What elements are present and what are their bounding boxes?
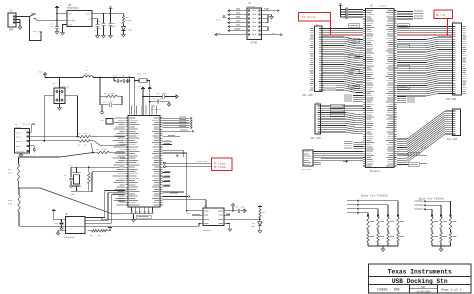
- esd filter D1 box: [54, 88, 65, 104]
- J5 pin squares: [318, 106, 321, 132]
- svg-text:C2: C2: [64, 174, 66, 177]
- svg-text:470R: 470R: [126, 19, 132, 22]
- U1 right wire B: [163, 130, 194, 133]
- svg-text:USBDF01W5: USBDF01W5: [59, 85, 70, 88]
- U5 pin4 ground: [226, 224, 231, 232]
- label SIL-40M J3: [303, 94, 314, 97]
- U2 bottom right label boxes: [397, 152, 419, 166]
- label U5: [204, 205, 207, 208]
- J3 bus label boxes: [349, 24, 360, 89]
- label J4R: [453, 20, 456, 23]
- J4R bus label boxes: [398, 24, 410, 89]
- wire U3 Vout: [92, 13, 124, 15]
- U1 right stubs C: [163, 135, 180, 145]
- U1 outside left labels: [113, 118, 125, 206]
- svg-text:USB Docking Stn: USB Docking Stn: [392, 278, 448, 285]
- svg-text:Data+: Data+: [16, 140, 23, 143]
- connector J5 box: [315, 104, 321, 134]
- U2 right pin ticks: [394, 11, 397, 167]
- svg-text:TS5A3159: TS5A3159: [64, 236, 75, 239]
- U3 gnd pin wire: [61, 25, 67, 36]
- svg-text:J1: J1: [9, 10, 13, 13]
- resistor R8 470R: [122, 14, 132, 24]
- boot B resistor columns: [431, 201, 457, 246]
- U1 right stubs D: [163, 171, 171, 186]
- svg-text:100n: 100n: [162, 92, 167, 95]
- J7 second column pins: [313, 152, 321, 165]
- capacitor C1: [51, 23, 60, 35]
- svg-text:5v-USB: 5v-USB: [23, 123, 31, 126]
- U5 inner pin names: [204, 210, 223, 224]
- svg-text:TMS: TMS: [236, 8, 241, 11]
- resistor R4 27R0: [100, 92, 122, 105]
- svg-text:R9: R9: [263, 211, 265, 214]
- J2 right wire row5: [262, 27, 269, 31]
- connector J4R box: [453, 23, 462, 95]
- svg-text:Texas Instruments: Texas Instruments: [388, 269, 452, 276]
- U1 right wire to U5 vertical pair: [163, 150, 187, 210]
- svg-text:C17: C17: [252, 223, 255, 225]
- wire long bottom: [19, 225, 88, 227]
- label J1: [9, 10, 13, 13]
- svg-text:R22: R22: [98, 235, 101, 237]
- regulator U3 box: [67, 11, 92, 27]
- U1 top pin hatch: [131, 106, 157, 115]
- USB pin labels: [16, 131, 24, 153]
- power flag 3V3 output: [109, 7, 113, 15]
- clock output pins circles: [164, 162, 166, 168]
- svg-text:1k5: 1k5: [8, 203, 13, 206]
- title cell C2000 DAF: [377, 289, 400, 293]
- svg-text:DIL-14M: DIL-14M: [247, 5, 256, 8]
- crystal X1: [70, 164, 92, 191]
- svg-text:Enable: Enable: [68, 19, 77, 22]
- svg-text:P28xxx: P28xxx: [379, 4, 387, 7]
- U1 right pin ticks: [160, 118, 163, 205]
- ic U6 box: [66, 217, 86, 234]
- U6 left pins: [56, 220, 65, 235]
- boot B left wires: [415, 200, 451, 210]
- J4R pin squares: [453, 27, 456, 94]
- J3 to U2 wires: [322, 29, 363, 93]
- resistor R9: [259, 209, 265, 219]
- svg-text:Gnd: Gnd: [68, 24, 73, 27]
- svg-text:Shield: Shield: [16, 150, 24, 153]
- svg-text:6 MHz: 6 MHz: [69, 193, 76, 196]
- connector J3 box: [315, 26, 323, 92]
- wire to TP Clock red box: [166, 161, 212, 166]
- svg-text:DOC: DOC: [421, 286, 426, 289]
- svg-text:FB1, Fe: FB1, Fe: [138, 73, 147, 76]
- label J2: [247, 2, 256, 8]
- title text USB Docking Stn: [392, 278, 448, 285]
- D1 left pin riser: [43, 96, 54, 142]
- highlight box MR Clock: [434, 10, 453, 19]
- svg-text:16-09-2005: 16-09-2005: [417, 290, 431, 293]
- ic U5 box: [203, 208, 224, 226]
- svg-text:VBus: VBus: [16, 131, 22, 134]
- svg-text:C2000 - DAF: C2000 - DAF: [377, 289, 400, 293]
- power flag LED stack: [258, 205, 262, 209]
- net arrow mid: [343, 160, 348, 162]
- svg-text:5V0: 5V0: [39, 71, 44, 74]
- label PWR: [9, 29, 14, 32]
- LED D2: [122, 24, 133, 38]
- J2 right wire PD: [262, 32, 283, 36]
- svg-text:TP Clock: TP Clock: [302, 15, 316, 19]
- svg-text:27R0: 27R0: [109, 92, 115, 95]
- label U2: [370, 4, 387, 7]
- svg-text:TDI: TDI: [236, 12, 241, 15]
- title text Texas Instruments: [388, 269, 452, 276]
- title block frame: [369, 264, 472, 293]
- U1 wire to U5 top: [163, 200, 206, 208]
- connector J7 box: [303, 150, 313, 166]
- ic U1 box: [128, 116, 160, 207]
- wire Data+ with resistor R3 27R: [29, 140, 125, 147]
- svg-text:Pwr_SW: Pwr_SW: [33, 30, 42, 33]
- svg-text:C16: C16: [55, 223, 58, 225]
- svg-text:TCK: TCK: [236, 20, 241, 23]
- svg-text:PWR: PWR: [9, 29, 14, 32]
- U6 right pins: [85, 218, 88, 227]
- U1 left pin ticks: [125, 118, 128, 205]
- U1 bottom pins: [121, 207, 154, 222]
- svg-text:EMU1: EMU1: [216, 32, 222, 35]
- LED D3: [251, 219, 262, 233]
- svg-text:USB-B: USB-B: [14, 126, 21, 129]
- U3 pin labels: [68, 13, 92, 27]
- U2 left pin ticks: [363, 11, 366, 167]
- U2 to J6 wires: [397, 111, 453, 162]
- label Boot for F2833x: [361, 193, 388, 197]
- wire Shield to ground: [19, 153, 23, 157]
- capacitor C15 100n: [149, 98, 171, 107]
- boot A resistor columns: [367, 201, 404, 246]
- svg-text:Vout: Vout: [86, 13, 92, 16]
- J2 left net labels: [228, 8, 241, 32]
- J5 to U2 wires: [321, 106, 363, 134]
- label SIL-16M J5: [311, 137, 322, 140]
- label U6: [65, 213, 68, 216]
- switch SW1: [29, 13, 37, 20]
- USB pin squares: [27, 131, 29, 152]
- svg-text:EMU0: EMU0: [234, 28, 240, 31]
- title cell Page: [441, 287, 462, 291]
- svg-text:100n: 100n: [96, 27, 102, 30]
- connector J4 USB-B box: [14, 129, 29, 153]
- label JTAG: [251, 42, 258, 45]
- resistor R9 1M: [88, 166, 94, 191]
- U6 bottom resistors R21 R22: [88, 226, 112, 237]
- connector J6 box: [453, 109, 461, 136]
- boot B ground: [432, 246, 451, 252]
- J3 pin squares: [319, 29, 322, 91]
- highlight box TP Clock right: [299, 13, 331, 22]
- U2 to J4R wires: [397, 27, 453, 97]
- ferrite bead FB1: [135, 73, 150, 88]
- crystal output wires: [89, 167, 126, 192]
- ground under J1: [18, 20, 22, 30]
- inductor L1: [83, 69, 93, 78]
- wire rail drop left: [130, 78, 136, 116]
- svg-text:1k5: 1k5: [8, 172, 13, 175]
- U3 NR pin to capacitor C7: [92, 19, 100, 38]
- capacitor C16: [55, 219, 64, 230]
- J6 pin squares: [453, 111, 456, 134]
- right margin smudges: [420, 148, 428, 164]
- svg-text:SIL-16M: SIL-16M: [447, 138, 458, 141]
- svg-text:100n: 100n: [251, 226, 255, 228]
- label U1 TUSB5052: [151, 105, 162, 111]
- connector J1 power input: [8, 13, 20, 27]
- svg-text:SM-28xxx: SM-28xxx: [370, 170, 382, 173]
- svg-text:JTAG: JTAG: [251, 42, 258, 45]
- label LMC6035: [202, 229, 211, 232]
- junction Vin: [56, 13, 58, 21]
- boot A ground: [368, 246, 398, 252]
- capacitor C4 C5 pair: [114, 74, 130, 83]
- wire to Vin: [57, 13, 67, 15]
- svg-text:SIL-16M: SIL-16M: [311, 137, 322, 140]
- svg-text:LED: LED: [128, 29, 133, 32]
- D1 right pin riser: [65, 96, 78, 138]
- U1 right wires group A: [163, 117, 192, 129]
- label Boot for F280xx: [419, 196, 444, 200]
- resistor R1 1k5: [8, 157, 20, 181]
- label U3: [67, 4, 79, 10]
- label TS5A3159: [64, 236, 75, 239]
- J2 pin7 left wire EMU1: [215, 32, 247, 36]
- label J5: [316, 101, 319, 104]
- testpoint circle: [101, 105, 104, 114]
- capacitor C12 100n: [142, 92, 178, 99]
- wire switch to regulator: [37, 19, 68, 21]
- wire Gnd to ground: [29, 146, 35, 153]
- J2 right ground bus: [262, 15, 274, 23]
- resistor R6 27R0: [91, 143, 125, 154]
- label SIL-40M J4R: [446, 98, 457, 101]
- U5 left stub labels: [100, 210, 200, 226]
- svg-text:Boot for F280xx: Boot for F280xx: [419, 196, 444, 200]
- power flag 3V3 b: [148, 87, 152, 115]
- U2 decoupling caps: [339, 4, 363, 19]
- D1 bottom pin to ground: [58, 104, 62, 111]
- U5 right wire to 5V: [226, 204, 235, 212]
- red net wire left: [322, 21, 363, 36]
- power flag 5V3 JTAG: [216, 16, 226, 22]
- net label Pwr_SW: [29, 17, 42, 41]
- U5 right stub 2: [226, 213, 230, 215]
- wire Data- with resistor R2 27R: [29, 132, 125, 138]
- svg-text:100n: 100n: [159, 98, 164, 101]
- label USB-B: [14, 123, 21, 129]
- highlight box TP Clock mid: [212, 158, 233, 171]
- U1 right stubs E: [163, 192, 190, 197]
- J3 left pin numbers: [310, 28, 314, 90]
- svg-text:Page 1 of 1: Page 1 of 1: [441, 287, 462, 291]
- power flag 5V input: [55, 6, 59, 26]
- J7 to U2 wires: [321, 152, 363, 162]
- power flag 5V rail: [39, 71, 47, 78]
- U2 bottom left stubs: [344, 141, 363, 149]
- U2 top right stub wires: [397, 11, 423, 20]
- wire 5V rail: [45, 77, 135, 79]
- U2 left mid stubs: [344, 94, 363, 101]
- svg-text:TCK: TCK: [236, 24, 241, 27]
- label D1 USBDF01W5: [53, 82, 70, 88]
- wire R1 bottom diagonal: [19, 181, 122, 214]
- svg-text:SIL-10M: SIL-10M: [302, 168, 312, 171]
- J2 pin numbers: [253, 10, 256, 35]
- J5 wire label boxes: [330, 104, 345, 116]
- capacitor C6 100n: [100, 96, 122, 107]
- J2 pin squares: [248, 10, 261, 36]
- U1 inner left pin names: [129, 118, 140, 206]
- wire J1 pin1 to SW1: [20, 16, 29, 18]
- svg-text:SIL-40M: SIL-40M: [303, 94, 314, 97]
- J4R right pin numbers: [462, 26, 466, 94]
- junction rail filter: [99, 77, 131, 79]
- U1 left stub wires: [118, 145, 125, 201]
- label SM-28xxx: [370, 170, 382, 173]
- svg-text:R21: R21: [90, 235, 93, 237]
- svg-text:LMC6035: LMC6035: [202, 229, 211, 232]
- label SIL-10M J7: [302, 168, 312, 171]
- U6 right wires up: [88, 191, 199, 227]
- svg-text:TP Clock: TP Clock: [214, 161, 227, 165]
- svg-text:TRST: TRST: [264, 8, 270, 11]
- crystal left cap C2: [64, 167, 73, 187]
- label 6 MHz: [69, 193, 76, 196]
- svg-text:TP Clock: TP Clock: [214, 165, 227, 169]
- svg-text:Boot for F2833x: Boot for F2833x: [361, 193, 388, 197]
- power flag 3V3 a: [138, 85, 145, 116]
- svg-text:C12: C12: [156, 92, 159, 95]
- svg-text:MR Clk: MR Clk: [436, 13, 446, 17]
- J2 left wires: [228, 11, 247, 31]
- boot A left wires: [347, 200, 398, 214]
- svg-text:SIL-40M: SIL-40M: [446, 98, 457, 101]
- wire R1 top: [19, 152, 94, 157]
- power flag U6: [52, 209, 62, 220]
- svg-text:TDO: TDO: [236, 16, 241, 19]
- svg-text:100n: 100n: [108, 101, 114, 104]
- capacitor C10: [108, 13, 116, 38]
- J2 right wire TRST: [262, 8, 280, 12]
- J3 lower net names: [324, 83, 336, 90]
- connector J2 JTAG box: [247, 8, 262, 39]
- U2 right mid stubs: [397, 95, 415, 102]
- title cell DOC: [417, 286, 431, 293]
- ic U2 box: [366, 9, 395, 168]
- svg-text:100n: 100n: [241, 207, 245, 209]
- capacitor C9: [96, 13, 106, 38]
- label SIL-16M J6: [447, 138, 458, 141]
- junction rail to R4: [99, 78, 101, 97]
- U2 inner right pin names: [386, 10, 393, 166]
- svg-text:Data-: Data-: [16, 136, 22, 139]
- U5 right wire to LED stack: [226, 218, 260, 220]
- U1 inner right pin names: [152, 118, 159, 206]
- svg-text:Rst: Rst: [187, 212, 191, 215]
- D1 top pin: [59, 77, 61, 88]
- U2 inner left pin names: [367, 10, 375, 166]
- power flag 5V-USB: [23, 123, 36, 133]
- U1 bottom boxed label: [136, 215, 151, 218]
- component C8 pad: [101, 119, 113, 125]
- capacitor C18 100n: [233, 206, 246, 213]
- U5 pin ticks: [201, 211, 227, 224]
- svg-text:TPS76633: TPS76633: [67, 7, 79, 10]
- red net wire right: [397, 19, 453, 36]
- svg-text:Vin: Vin: [68, 13, 73, 16]
- label 3V J3: [316, 23, 319, 26]
- svg-text:27R0: 27R0: [101, 148, 107, 151]
- resistor R16 1k5: [8, 187, 20, 226]
